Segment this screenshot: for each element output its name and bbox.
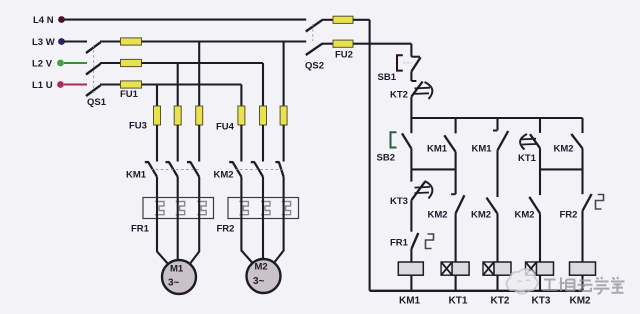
switch QS1 pole 2 blade [86, 64, 101, 75]
contact KM2 nc branch2 blade [456, 195, 465, 213]
node L3 terminal dot [58, 38, 65, 45]
svg-text:KM1: KM1 [399, 296, 421, 307]
wire FR1 pole1 inside [156, 198, 158, 219]
fuse FU1 pole W [121, 38, 142, 45]
wire FR2 pole3 inside [283, 198, 285, 219]
svg-text:KM1: KM1 [126, 170, 147, 181]
wire L3 lead [64, 40, 87, 42]
switch QS2 pole 1 blade [306, 20, 322, 31]
fuse FU4 pole 3 [280, 106, 287, 125]
wire drop V to fuse FU3-2 [177, 63, 179, 106]
contact KM2 no branch3 label [471, 210, 491, 221]
contact KM1 nc branch3 label [472, 144, 493, 155]
thermal relay FR1 heater 1 [155, 202, 164, 215]
wire control top bus [411, 117, 582, 119]
pushbutton SB1 blade [411, 57, 420, 71]
fuse FU3 label [129, 121, 147, 132]
timer contact KT3 upper wire [410, 169, 412, 181]
wire FR2 to motor M2 left [241, 219, 253, 264]
wire W row after fuse [142, 40, 307, 42]
node L3 W label [32, 37, 55, 48]
svg-text:FU2: FU2 [335, 50, 353, 61]
fuse FU2 pole 2 [333, 40, 353, 47]
wire drop V corner to fuse FU4-2 [262, 63, 264, 106]
wire drop U corner to fuse FU4-1 [240, 85, 242, 107]
wire tie KT1 to KM2 branch [540, 168, 583, 170]
fuse FU3 pole 3 [196, 106, 203, 125]
switch QS1 label [87, 97, 107, 108]
timer contact KT3 blade [411, 182, 425, 200]
contactor KM2 main contact pole 2 [251, 162, 263, 177]
svg-text:KM2: KM2 [554, 144, 574, 155]
fuse FU3 pole 1 [154, 106, 161, 125]
pushbutton SB2 label [377, 153, 395, 164]
timer contact KT1 delay bars [521, 139, 536, 145]
timer contact KT3 delay arc [425, 181, 433, 199]
wire KM2 pole2 to FR2 [262, 177, 264, 198]
timer contact KT1 branch4 blade [530, 134, 540, 148]
wire SB1 to KT2 [410, 72, 412, 82]
wire drop W to fuse FU3-3 [198, 42, 200, 107]
wire FR1 pole2 inside [177, 198, 179, 219]
fuse FU2 label [335, 50, 353, 61]
svg-text:M1: M1 [170, 264, 184, 275]
node L4 terminal dot [58, 16, 65, 23]
svg-text:KM2: KM2 [428, 210, 448, 221]
svg-text:L1 U: L1 U [32, 80, 53, 91]
svg-text:KT1: KT1 [518, 153, 537, 164]
pushbutton SB2 blade [402, 133, 411, 148]
wire drop W to fuse FU4-3 [283, 42, 285, 107]
wire branch5 mid [581, 148, 583, 194]
thermal relay FR2 heater 1 [239, 202, 248, 215]
wire V row to fuse [100, 62, 121, 64]
coil KT2 label [491, 296, 510, 307]
timer contact KT1 branch4 upper wire [539, 118, 541, 133]
contactor KM1 label [126, 170, 147, 181]
wire KM1 pole2 to FR1 [177, 177, 179, 198]
contact KM1 nc branch3 blade [498, 131, 509, 150]
node L1 terminal dot [57, 81, 64, 88]
switch QS2 pole 2 blade [306, 44, 322, 55]
wire coil KM2 to bottom bus [581, 275, 583, 291]
wire coil KT3 to bottom bus [539, 275, 541, 291]
svg-text:3~: 3~ [168, 278, 180, 289]
timer contact KT2 blade [411, 82, 422, 97]
motor M1 [162, 260, 196, 294]
fuse FU2 pole 1 [333, 16, 353, 23]
pushbutton SB1 seat [411, 56, 420, 58]
watermark cloud logo [506, 269, 537, 294]
thermal contact FR1 hook [426, 234, 434, 249]
thermal relay FR1 box [143, 198, 214, 219]
coil KM1 label [399, 296, 421, 307]
svg-text:L4 N: L4 N [33, 15, 54, 26]
wire W row to fuse [100, 40, 121, 42]
svg-text:KT3: KT3 [390, 196, 408, 207]
coil KT1 label [449, 296, 468, 307]
wire KM2 pole1 to FR2 [240, 177, 242, 198]
thermal relay FR2 box [228, 198, 299, 219]
wire FR1 to motor M1 right [189, 219, 199, 266]
svg-text:KT3: KT3 [532, 296, 551, 307]
thermal contact FR2 label [560, 210, 578, 221]
wire KM1 pole1 to FR1 [156, 177, 158, 198]
wire FR2 pole2 inside [262, 198, 264, 219]
contact KM1 aux branch2 label [427, 144, 448, 155]
svg-text:L2 V: L2 V [32, 59, 53, 70]
svg-text:KM2: KM2 [515, 210, 535, 221]
wire branch2 mid [455, 152, 457, 194]
contactor KM2 main contact pole 3 [275, 162, 283, 177]
contactor KM1 main contact pole 2 [166, 162, 178, 177]
thermal contact FR2 hook [596, 195, 604, 210]
wire coil KT2 to bottom bus [496, 275, 498, 291]
wire L1 lead [64, 83, 87, 85]
wire fuse FU3-3 to KM1 [198, 125, 200, 162]
node L2 V label [32, 59, 53, 70]
svg-text:SB1: SB1 [378, 72, 397, 83]
fuse FU4 label [216, 122, 235, 133]
pushbutton SB2 upper wire [410, 118, 412, 133]
wire branch4 to coil KT3 [539, 213, 541, 262]
contact KM1 nc branch3 seat [493, 130, 498, 132]
wire U row to fuse [100, 83, 121, 85]
svg-text:FR1: FR1 [131, 224, 150, 235]
switch QS1 linkage dashed [93, 45, 95, 93]
switch QS1 pole 3 blade [86, 85, 101, 96]
svg-text:KM1: KM1 [472, 144, 493, 155]
coil KT2 cross box [483, 262, 494, 275]
coil KM2 [570, 262, 596, 275]
wire FR2 to motor M2 right [274, 219, 284, 264]
timer contact KT3 label [390, 196, 408, 207]
wire fuse FU2-1 to rail corner [353, 19, 370, 21]
contact KM2 aux branch5 blade [571, 134, 582, 148]
thermal contact FR1 blade [411, 233, 418, 249]
wire branch3 to coil KT2 [496, 213, 498, 262]
thermal relay FR1 heater 2 [176, 202, 185, 215]
watermark text [543, 277, 625, 294]
thermal relay FR1 heater 3 [197, 202, 206, 215]
wire bottom bus [370, 290, 583, 292]
thermal relay FR2 heater 2 [261, 202, 270, 215]
thermal relay FR2 label [217, 224, 235, 235]
wire N row [64, 19, 306, 21]
contactor KM1 main contact pole 3 [187, 162, 199, 177]
svg-text:FU3: FU3 [129, 121, 147, 132]
svg-text:KT2: KT2 [390, 90, 408, 101]
fuse FU3 pole 2 [174, 106, 181, 125]
wire U row after fuse [142, 83, 242, 85]
wire fuse FU4-2 to KM2 [262, 125, 264, 162]
svg-text:3~: 3~ [253, 276, 265, 287]
wire FR1 to motor M1 left [157, 219, 169, 266]
contact KM2 nc branch2 seat [451, 193, 456, 195]
wire KT3 to FR1 contact [410, 200, 412, 232]
contactor KM1 main contact pole 1 [145, 162, 157, 177]
wire fuse FU4-1 to KM2 [240, 125, 242, 162]
coil KT2 box [494, 262, 511, 275]
wire V row after fuse [142, 62, 264, 64]
svg-text:KM2: KM2 [471, 210, 491, 221]
svg-text:SB2: SB2 [377, 153, 395, 164]
node L4 N label [33, 15, 54, 26]
svg-text:FR2: FR2 [217, 224, 235, 235]
coil KT3 cross box [526, 262, 537, 275]
contact KM2 aux branch5 upper wire [581, 118, 583, 133]
thermal relay FR2 heater 3 [282, 202, 291, 215]
wire branch4 mid [539, 148, 541, 195]
contactor KM2 main contact pole 1 [229, 162, 241, 177]
coil KM2 label [570, 296, 592, 307]
timer contact KT2 delay arc [425, 82, 433, 99]
pushbutton SB1 label [378, 72, 397, 83]
wire coil KM1 to bottom bus [410, 275, 412, 291]
wire branch2 to coil KT1 [455, 213, 457, 262]
node L1 U label [32, 80, 53, 91]
wire drop U to fuse FU3-1 [156, 85, 158, 107]
wire KM2 pole3 to FR2 [283, 177, 285, 198]
wire control feed to SB1 corner [353, 43, 411, 45]
wire FR1 contact to coil KM1 [410, 249, 412, 262]
wire SB2 to tie [410, 149, 412, 170]
svg-text:KT2: KT2 [491, 296, 510, 307]
wire fuse FU4-3 to KM2 [283, 125, 285, 162]
svg-text:KM2: KM2 [570, 296, 592, 307]
svg-text:KM2: KM2 [214, 170, 234, 181]
svg-text:KM1: KM1 [427, 144, 448, 155]
wire FR1 pole3 inside [198, 198, 200, 219]
contactor KM1 linkage dashed [151, 169, 202, 171]
switch QS1 pole 1 blade [86, 42, 101, 53]
contact KM1 aux branch2 blade [444, 135, 455, 152]
timer contact KT2 label [390, 90, 408, 101]
switch QS2 linkage dashed [312, 24, 314, 41]
wire KT2 to bus node [410, 97, 412, 118]
switch QS2 label [305, 61, 324, 72]
wire tie SB2 to KM1 branch [411, 168, 455, 170]
fuse FU1 pole U [121, 81, 142, 88]
pushbutton SB1 actuator [397, 55, 403, 70]
svg-text:KT1: KT1 [449, 296, 468, 307]
coil KT1 cross box [441, 262, 452, 275]
wire fuse FU3-2 to KM1 [177, 125, 179, 162]
fuse FU1 label [120, 89, 139, 100]
contact KM2 nc branch2 label [428, 210, 448, 221]
wire FR2 pole1 inside [240, 198, 242, 219]
svg-text:FR1: FR1 [390, 238, 409, 249]
contact KM2 aux branch5 label [554, 144, 574, 155]
svg-text:L3 W: L3 W [32, 37, 55, 48]
contactor KM2 linkage dashed [235, 169, 286, 171]
contact KM2 no branch3 blade [487, 198, 498, 214]
timer contact KT2 seat [411, 80, 416, 82]
timer contact KT2 delay bars [415, 88, 431, 94]
wire branch3 mid [496, 150, 498, 197]
wire KM1 pole3 to FR1 [198, 177, 200, 198]
svg-text:FR2: FR2 [560, 210, 578, 221]
svg-text:M2: M2 [255, 262, 268, 273]
wire feed corner down to SB1 [410, 44, 412, 57]
wire L2 lead [64, 62, 87, 64]
wire branch5 to coil KM2 [581, 211, 583, 262]
wire QS2 pole2 to fuse [322, 43, 334, 45]
contact KM2 no branch4 label [515, 210, 535, 221]
svg-text:FU4: FU4 [216, 122, 235, 133]
contact KM1 aux branch2 upper wire [455, 118, 457, 133]
wire left rail neutral [369, 20, 371, 291]
thermal relay FR1 label [131, 224, 150, 235]
coil KT3 box [537, 262, 554, 275]
fuse FU4 pole 2 [260, 106, 267, 125]
contact KM1 nc branch3 upper wire [496, 118, 498, 130]
contact KM2 no branch4 blade [529, 197, 540, 214]
wire QS2 pole1 to fuse [322, 19, 334, 21]
fuse FU4 pole 1 [238, 106, 245, 125]
thermal contact FR1 label [390, 238, 409, 249]
fuse FU1 pole V [121, 59, 142, 66]
coil KT3 label [532, 296, 551, 307]
thermal contact FR2 blade [583, 194, 592, 211]
pushbutton SB1 actuator link dashed [404, 62, 412, 64]
coil KM1 [398, 262, 423, 275]
wire fuse FU3-1 to KM1 [156, 125, 158, 162]
node L2 terminal dot [57, 60, 64, 67]
wire FR1 to motor M1 mid [177, 219, 179, 261]
svg-text:QS2: QS2 [305, 61, 324, 72]
timer contact KT1 delay arc [520, 134, 527, 150]
timer contact KT3 delay bars [415, 187, 431, 193]
wire FR2 to motor M2 mid [262, 219, 264, 260]
coil KT1 box [452, 262, 469, 275]
motor M2 [247, 259, 281, 293]
svg-text:FU1: FU1 [120, 89, 139, 100]
wire coil KT1 to bottom bus [455, 275, 457, 291]
contactor KM2 label [214, 170, 234, 181]
svg-text:QS1: QS1 [87, 97, 107, 108]
pushbutton SB2 actuator [391, 132, 397, 147]
timer contact KT1 label [518, 153, 537, 164]
